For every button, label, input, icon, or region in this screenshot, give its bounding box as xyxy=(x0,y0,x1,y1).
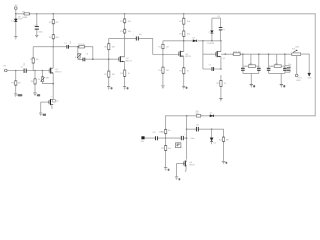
wire bottom rail xyxy=(166,115,316,117)
filter section 1 right leg xyxy=(257,53,261,73)
node junction x211.6 y129.2 xyxy=(211,128,213,130)
wire Q4 drain chain xyxy=(183,14,185,87)
resistor R20 (section 1 bridge) xyxy=(243,54,259,67)
component box (DIP) xyxy=(176,143,181,148)
wire Q3 gate line y59.2 xyxy=(78,58,119,60)
svg-text:SW: SW xyxy=(141,141,144,143)
potentiometer VR3 (volume) xyxy=(292,46,301,55)
node gate junction x15.7 xyxy=(15,70,17,72)
node Q1 drain junction y46.7 xyxy=(52,46,54,48)
capacitor C13 (series) xyxy=(181,134,194,140)
wire Q2 source stub xyxy=(51,105,53,109)
ground (R14) xyxy=(161,86,164,89)
wire +9V rail top xyxy=(16,13,315,15)
wire Q6 drain column xyxy=(186,116,188,160)
filter section 1 left leg xyxy=(241,53,247,73)
node junction x165.6 y138.1 xyxy=(165,137,167,139)
ground (Q6 gate) xyxy=(175,177,181,181)
wire interstage y46.7 xyxy=(33,47,93,60)
wire R2 pulldown branch xyxy=(15,71,17,94)
wire Q3 drain load chain xyxy=(124,14,126,39)
resistor R18 (Q5 source) xyxy=(216,80,226,86)
transistor Q5 xyxy=(216,51,225,60)
resistor lead ticks (horizontal resistors) xyxy=(24,14,241,116)
resistor R9 (bias lower) xyxy=(104,71,115,77)
diode D1 xyxy=(11,17,23,23)
wire Q4 gate line y54.5 xyxy=(153,54,179,56)
capacitor C11 (parallel loop) xyxy=(285,64,291,72)
svg-text:1k: 1k xyxy=(224,83,226,85)
node junction x220.9 y40.8 xyxy=(220,40,222,42)
svg-text:1M: 1M xyxy=(226,139,229,141)
svg-text:1M: 1M xyxy=(166,70,169,72)
ground (R24) xyxy=(222,161,228,164)
transistor Q6 xyxy=(184,161,195,167)
svg-text:1k8: 1k8 xyxy=(249,63,252,65)
svg-text:D5: D5 xyxy=(210,113,212,115)
svg-text:BS170: BS170 xyxy=(189,165,194,167)
ground (pot, triangle) xyxy=(308,73,313,79)
wire pot wiper to jack xyxy=(296,56,298,75)
svg-text:100n: 100n xyxy=(190,138,194,140)
node junction x202.9 xyxy=(202,40,204,42)
node junction x35 xyxy=(34,70,36,72)
filter section 2 left leg xyxy=(267,53,273,73)
svg-text:10k: 10k xyxy=(128,21,131,23)
ground (C2 branch) xyxy=(35,35,38,38)
svg-text:BS170: BS170 xyxy=(55,72,62,74)
wire right border down xyxy=(314,14,316,116)
node Q1 source junction xyxy=(52,83,54,85)
wire +9V terminal to rail xyxy=(15,9,17,13)
svg-text:s: s xyxy=(51,96,52,98)
resistor R1 (series in rail) xyxy=(22,11,30,19)
node rail junction x36.8 xyxy=(36,13,37,14)
resistor R7 (series) xyxy=(78,44,84,48)
svg-text:R25: R25 xyxy=(196,113,199,115)
capacitor C1 (input coupling) xyxy=(21,63,27,73)
svg-text:10n: 10n xyxy=(196,125,199,127)
ground (R9) xyxy=(107,87,113,90)
capacitor C14 (series) xyxy=(196,125,199,132)
wire feedback branch up xyxy=(33,47,35,71)
svg-text:1M: 1M xyxy=(112,46,115,48)
svg-text:10k: 10k xyxy=(168,148,171,150)
node junction x78.9 xyxy=(77,46,79,48)
resistor R10 (Q3 source) xyxy=(120,70,130,77)
transistor Q2 (lower cascode) xyxy=(49,96,59,105)
resistor R3 xyxy=(49,20,60,24)
wire protection box top xyxy=(212,17,221,19)
svg-text:3: 3 xyxy=(80,53,81,55)
svg-text:10k: 10k xyxy=(168,130,171,132)
svg-text:2n2: 2n2 xyxy=(70,41,72,44)
svg-text:1n: 1n xyxy=(245,66,247,68)
ground (section 1) xyxy=(250,85,256,88)
svg-text:2k: 2k xyxy=(38,79,40,81)
trimmer VR1 xyxy=(38,77,50,82)
svg-text:BS170: BS170 xyxy=(185,56,191,58)
wire section 2 bottom xyxy=(269,73,285,84)
svg-text:100n: 100n xyxy=(159,131,163,133)
wire Q1 drain up / source down xyxy=(52,47,54,99)
svg-text:10k: 10k xyxy=(187,34,190,36)
wire R24 to ground xyxy=(223,142,225,161)
svg-text:1k: 1k xyxy=(128,73,130,75)
svg-text:1n: 1n xyxy=(257,66,259,68)
filter section 2 right leg xyxy=(283,53,287,73)
svg-text:100k: 100k xyxy=(295,46,299,48)
wire section 1 bottom xyxy=(243,73,259,84)
ground (R10) xyxy=(123,87,129,90)
wire feedback top y40.8 xyxy=(163,40,221,42)
resistor R23 (bias chain lower) xyxy=(161,145,171,150)
capacitor C3 (coupling) xyxy=(64,41,72,49)
node junction x186.6 y138.1 xyxy=(186,137,188,139)
capacitor C4 (series on gate line) xyxy=(83,54,89,62)
node rail junction x15.8 xyxy=(15,13,17,15)
node IN terminal xyxy=(4,66,8,72)
wire C2 branch from rail xyxy=(36,14,38,35)
wire Q6 source stub xyxy=(185,167,186,172)
node junction x225.3 xyxy=(225,53,227,55)
resistor R4 xyxy=(49,35,60,39)
wire bias line y138.1 xyxy=(145,137,187,139)
svg-text:100R: 100R xyxy=(22,17,28,19)
svg-text:100u: 100u xyxy=(38,31,42,33)
capacitor C6 branch xyxy=(217,16,225,41)
svg-text:1M: 1M xyxy=(18,82,21,84)
capacitor C12 (series) xyxy=(152,131,163,140)
svg-text:1k: 1k xyxy=(187,71,189,73)
svg-text:D4: D4 xyxy=(213,142,215,144)
node Q2 gate dot xyxy=(48,101,50,103)
wire R6 pulldown branch xyxy=(34,71,36,93)
transistor Q4 xyxy=(179,51,191,58)
wire Q3 drain up / source down xyxy=(124,38,126,86)
wire feedback chain x162.9 xyxy=(162,41,164,86)
wire drain chain Q1 xyxy=(52,14,54,47)
ground (Q2 gate) xyxy=(39,113,46,116)
node trimmer junction x42.4 xyxy=(42,70,44,72)
resistor R21 (section 2 bridge) xyxy=(269,54,285,67)
node junction x183.7 y40.8 xyxy=(183,40,185,42)
wire input signal line xyxy=(7,70,49,72)
wire bias divider feed x108.7 xyxy=(108,38,110,86)
node OUT terminal xyxy=(295,74,302,82)
transistor Q1 xyxy=(49,68,62,74)
resistor lead ticks (dark end blobs) xyxy=(16,18,224,151)
wire output line y54.1 xyxy=(221,53,292,55)
svg-text:1N4148: 1N4148 xyxy=(207,43,214,45)
svg-text:Q5: Q5 xyxy=(223,58,226,60)
ground (D1 branch) xyxy=(14,37,17,40)
svg-text:1M: 1M xyxy=(166,47,169,49)
wire gain pot branch xyxy=(77,47,79,60)
node bias input pad xyxy=(141,136,145,143)
svg-text:10k: 10k xyxy=(128,31,131,33)
svg-text:10n: 10n xyxy=(288,64,291,66)
node +9V terminal xyxy=(14,5,18,9)
node rail junction x124.6 xyxy=(124,13,126,15)
wire Q2 gate to ground xyxy=(40,102,42,113)
resistor R8 (bias upper) xyxy=(104,44,115,50)
svg-text:R7 10k: R7 10k xyxy=(78,44,84,46)
ground (section 2) xyxy=(280,85,286,88)
ground (R17) xyxy=(182,86,188,89)
node junction x92.8 gate line xyxy=(92,58,94,60)
wire Q5 gate feed x202.9 xyxy=(203,41,216,69)
svg-text:10n: 10n xyxy=(22,63,24,66)
svg-text:1n: 1n xyxy=(271,66,273,68)
svg-text:1M: 1M xyxy=(36,59,39,61)
svg-text:BS170: BS170 xyxy=(126,60,133,62)
node junction x186.6 y115.8 xyxy=(186,115,188,117)
resistor R24 xyxy=(219,137,229,142)
diode D5 (series on bottom rail) xyxy=(210,113,214,118)
wire Q6 gate xyxy=(177,163,184,165)
svg-text:+9V: +9V xyxy=(14,5,18,7)
resistor R5 feedback xyxy=(30,58,38,63)
wire osc line y129.2 xyxy=(187,129,224,137)
wire interstage y38.4 xyxy=(109,38,153,54)
svg-text:GND: GND xyxy=(308,78,313,80)
wire trimmer branch xyxy=(42,71,53,84)
node Q6 gate dot xyxy=(183,163,185,165)
svg-text:GND: GND xyxy=(18,95,23,97)
svg-text:R19 10k: R19 10k xyxy=(233,51,240,53)
node junction x220.9 y69 xyxy=(220,68,222,70)
svg-text:JACK: JACK xyxy=(296,79,301,82)
diode D2 (series, feedback line) xyxy=(193,38,197,42)
wire Q6 gate to ground xyxy=(176,164,178,177)
svg-text:VOL: VOL xyxy=(292,48,296,50)
wire Q5 drain/source xyxy=(220,41,222,99)
svg-text:10k: 10k xyxy=(187,21,190,23)
capacitor C2 (electrolytic) xyxy=(33,25,42,33)
wire Q2 gate from left xyxy=(41,101,49,103)
zener D3 branch xyxy=(209,18,214,41)
node junction x211.9 y40.8 xyxy=(211,40,213,42)
transistor Q3 xyxy=(119,56,133,62)
ground (R2) xyxy=(14,94,23,97)
ground (R6) xyxy=(33,93,40,97)
capacitor C5 (electrolytic coupling) xyxy=(133,34,142,40)
svg-text:1u: 1u xyxy=(223,29,225,31)
resistor R16 (drain lower) xyxy=(179,31,190,37)
ground (bias chain) xyxy=(164,168,170,172)
svg-text:10k: 10k xyxy=(196,111,199,113)
node junction x186.6 y129.2 xyxy=(186,128,188,130)
resistor R13 (feedback) xyxy=(159,44,169,48)
resistor R15 (drain upper) xyxy=(179,18,190,24)
node junction x108.7 gate line xyxy=(108,58,110,60)
diode D4 (to ground stub) xyxy=(210,129,216,144)
resistor R11 (drain load upper) xyxy=(120,19,131,23)
wire bottom rail left corner down xyxy=(165,116,167,168)
capacitor C7 (source bypass) xyxy=(209,65,214,71)
resistor R6 xyxy=(31,79,37,84)
resistor R12 (drain load lower) xyxy=(120,29,131,33)
node junction x124.6 y38.4 xyxy=(124,38,126,40)
wire D1 branch xyxy=(15,14,17,37)
resistor R17 (Q4 source) xyxy=(179,68,189,74)
resistor R14 (gate pulldown) xyxy=(158,67,169,73)
resistor R19 (series output) xyxy=(233,51,241,55)
trimmer VR2 (gain) xyxy=(75,53,81,59)
wire pot cold end to ground xyxy=(301,54,310,73)
resistor R2 xyxy=(11,81,20,85)
resistor R22 (bias chain upper) xyxy=(161,129,171,133)
resistor R25 (series on bottom rail) xyxy=(196,111,201,117)
node rail junction x53 xyxy=(53,13,55,15)
wire Q5 source loop y69 xyxy=(203,68,221,70)
ground (R18) xyxy=(219,99,222,102)
node rail junction x183.7 xyxy=(183,13,185,15)
svg-text:1M: 1M xyxy=(112,74,115,76)
svg-text:10u: 10u xyxy=(139,34,142,36)
svg-text:C6: C6 xyxy=(217,16,219,18)
node junction x162.9 gate xyxy=(162,54,164,56)
svg-text:1k8: 1k8 xyxy=(275,63,278,65)
